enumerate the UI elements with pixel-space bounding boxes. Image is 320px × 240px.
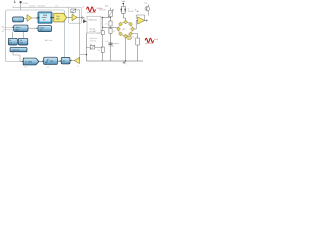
block filter F1 bbox=[8, 38, 17, 45]
svg-text:in2: in2 bbox=[2, 31, 4, 33]
svg-text:1N4148: 1N4148 bbox=[128, 11, 134, 13]
subsystem container box bbox=[6, 10, 65, 62]
label Ib marks bbox=[137, 10, 139, 12]
block SDM MATLAB function bbox=[38, 12, 52, 23]
wire DAC to opamp box bbox=[67, 17, 71, 19]
diode D1 bbox=[120, 7, 122, 14]
node J2 bbox=[102, 17, 103, 18]
svg-text:fcn: fcn bbox=[43, 20, 45, 22]
wire FIR to DS bbox=[57, 60, 61, 62]
diode ring D7 bottom bbox=[124, 34, 128, 38]
block DSM out pentagon bbox=[23, 58, 39, 65]
wire DS to gain bbox=[70, 60, 75, 62]
diode ring D3 top bbox=[124, 20, 128, 24]
pot R3 horizontal bbox=[86, 44, 102, 50]
diode ring D5 right bbox=[131, 27, 135, 31]
waveform Vin red sine bbox=[87, 7, 96, 12]
block downsample bbox=[61, 58, 70, 64]
arrowhead into FIR bbox=[42, 61, 43, 62]
svg-text:fs1: fs1 bbox=[25, 67, 28, 69]
capacitor C4 bbox=[105, 21, 112, 26]
node J3 bbox=[110, 17, 111, 18]
diode ring D8 lower-left bbox=[119, 32, 123, 36]
wire Decimator to AWGN bbox=[28, 27, 38, 29]
potentiometer feedback RV bbox=[70, 9, 76, 13]
block spectrum wide bbox=[10, 47, 27, 51]
svg-text:fs1: fs1 bbox=[9, 43, 11, 45]
wire B1 to G1 bbox=[23, 18, 27, 20]
port arrow into SDM box bbox=[83, 20, 86, 24]
trimmer RV1 bbox=[108, 8, 114, 18]
svg-text:filter: filter bbox=[16, 28, 20, 31]
block source B1 bbox=[13, 17, 24, 22]
svg-text:fs 6.4M: fs 6.4M bbox=[90, 31, 96, 33]
svg-text:Q1: Q1 bbox=[144, 2, 146, 4]
block filter F2 bbox=[18, 38, 28, 45]
diode ring D6 lower-right bbox=[129, 32, 133, 36]
wire U2 output bbox=[145, 20, 148, 21]
wire U1 input bbox=[68, 17, 72, 19]
diode ring: ring wire bbox=[119, 22, 133, 36]
lamp ellipse bbox=[127, 36, 132, 39]
source block SDM modulator output bbox=[87, 16, 101, 33]
wire U-big to DAC bbox=[52, 17, 54, 19]
wire ring left stub bbox=[116, 27, 119, 29]
wire bottom rail bbox=[86, 60, 143, 62]
svg-text:fs2: fs2 bbox=[20, 43, 22, 45]
svg-text:DT DSM: DT DSM bbox=[25, 61, 32, 63]
node junction J1 bbox=[86, 54, 87, 55]
svg-text:RL: RL bbox=[133, 36, 135, 38]
svg-text:C1: C1 bbox=[105, 23, 107, 25]
svg-text:bitstream: bitstream bbox=[90, 37, 98, 40]
op-amp U2 bbox=[138, 17, 145, 24]
svg-text:C2: C2 bbox=[113, 31, 115, 33]
label diodes bbox=[128, 8, 134, 12]
op-amp U1 bbox=[72, 14, 77, 21]
diode ring D9 left bbox=[117, 27, 121, 31]
svg-text:fs=6.4M: fs=6.4M bbox=[99, 10, 106, 12]
wire U1 feedback bbox=[75, 9, 79, 11]
waveform Vout red sine bbox=[145, 38, 153, 43]
wire spectrum elbow to DSM chain bbox=[13, 52, 23, 62]
wire source box down bbox=[85, 33, 87, 61]
svg-text:100k: 100k bbox=[105, 5, 109, 7]
label Villard note bbox=[109, 42, 120, 47]
transistor Q1 bbox=[144, 2, 149, 15]
wire ring right to opamp2 bbox=[134, 20, 138, 29]
svg-text:ADC out: ADC out bbox=[45, 39, 53, 42]
wire In2 into container bbox=[2, 30, 14, 33]
wire pot to opamp bbox=[72, 12, 74, 14]
diode D2 bbox=[124, 7, 126, 14]
wire U1 output elbow to source box bbox=[84, 18, 87, 22]
svg-text:1-bit: 1-bit bbox=[56, 15, 60, 18]
svg-text:rectifier: rectifier bbox=[109, 45, 115, 48]
svg-text:0: 0 bbox=[126, 64, 127, 66]
port tick at wire start bbox=[12, 6, 14, 8]
svg-text:Ib: Ib bbox=[135, 9, 137, 11]
svg-text:1uF: 1uF bbox=[105, 41, 108, 43]
wire ring bottom to rail bbox=[125, 37, 127, 61]
block AWGN channel bbox=[38, 26, 52, 32]
wire feedback long vertical bbox=[80, 10, 87, 60]
ground GND bbox=[123, 61, 127, 66]
capacitor C5 bbox=[109, 28, 115, 33]
wire diodes to ring top bbox=[121, 13, 125, 20]
svg-text:spectrum: spectrum bbox=[12, 49, 20, 52]
arrowhead into pentagon bbox=[22, 61, 23, 62]
wire ring lower-right to RL bbox=[132, 33, 138, 35]
diode ring D10 upper-left bbox=[119, 22, 123, 26]
wire U1 output bbox=[77, 17, 84, 19]
capacitor C2 bbox=[98, 31, 105, 35]
wire G1 to U-big bbox=[32, 17, 38, 19]
wire C5 down to cap branch bbox=[110, 33, 112, 61]
node VDD top-left dot bbox=[20, 1, 22, 10]
svg-text:zoh: zoh bbox=[55, 6, 58, 8]
arrowhead into gain G2 bbox=[70, 60, 71, 61]
wire top rail schematic bbox=[101, 16, 111, 18]
wire top horizontal bbox=[13, 6, 72, 8]
svg-text:1V level: 1V level bbox=[90, 41, 97, 43]
gain G2 triangle bbox=[74, 57, 79, 63]
svg-text:C2: C2 bbox=[98, 33, 100, 35]
node rail junction bbox=[125, 60, 126, 61]
arrowhead into DAC bbox=[53, 17, 54, 18]
svg-text:in1: in1 bbox=[2, 26, 4, 28]
diode ring D4 upper-right bbox=[129, 22, 133, 26]
wire In1 into container bbox=[2, 26, 14, 28]
note text under source bbox=[90, 37, 98, 43]
block FIR LPF bbox=[44, 57, 58, 64]
wire ring-left horizontal bbox=[103, 27, 116, 28]
svg-text:sine: sine bbox=[15, 19, 18, 21]
svg-text:24: 24 bbox=[63, 61, 65, 63]
svg-text:0.15v: 0.15v bbox=[23, 3, 29, 5]
resistor R2 bbox=[98, 47, 105, 52]
wire pentagon to FIR bbox=[39, 60, 43, 62]
supply VDD2 bbox=[121, 1, 126, 7]
block DAC pentagon bbox=[54, 13, 67, 22]
capacitor C3 bbox=[105, 41, 112, 45]
wire U2 feedback bbox=[136, 15, 144, 21]
arrowhead into decimator bbox=[12, 27, 13, 28]
wire trimmer branch down bbox=[110, 17, 112, 21]
svg-text:fs2: fs2 bbox=[47, 67, 50, 69]
block Decimator bbox=[14, 25, 28, 31]
svg-text:Ts=1/fs: Ts=1/fs bbox=[29, 5, 35, 7]
svg-text:R4: R4 bbox=[90, 44, 92, 46]
opamp subsystem box bbox=[68, 7, 81, 23]
svg-text:vin: vin bbox=[82, 6, 84, 8]
arrowhead into SDM big block bbox=[37, 17, 38, 18]
node J4 bbox=[102, 27, 103, 28]
svg-text:SDM mod: SDM mod bbox=[89, 19, 97, 21]
svg-text:Vout: Vout bbox=[154, 38, 158, 41]
svg-text:Ts=1/fs2: Ts=1/fs2 bbox=[38, 5, 46, 7]
svg-text:R2: R2 bbox=[98, 50, 100, 52]
arrowhead into buffer block bbox=[37, 28, 38, 29]
resistor RL bbox=[133, 34, 140, 62]
wire stub row2 to row4 left bbox=[11, 32, 13, 39]
arrowhead into downsample bbox=[60, 60, 61, 61]
wire stub row2 to row4 right bbox=[22, 32, 24, 39]
gain G1 triangle bbox=[27, 15, 32, 22]
branch ladder vertical bbox=[102, 17, 104, 61]
cursor arrow mark bbox=[14, 0, 16, 2]
